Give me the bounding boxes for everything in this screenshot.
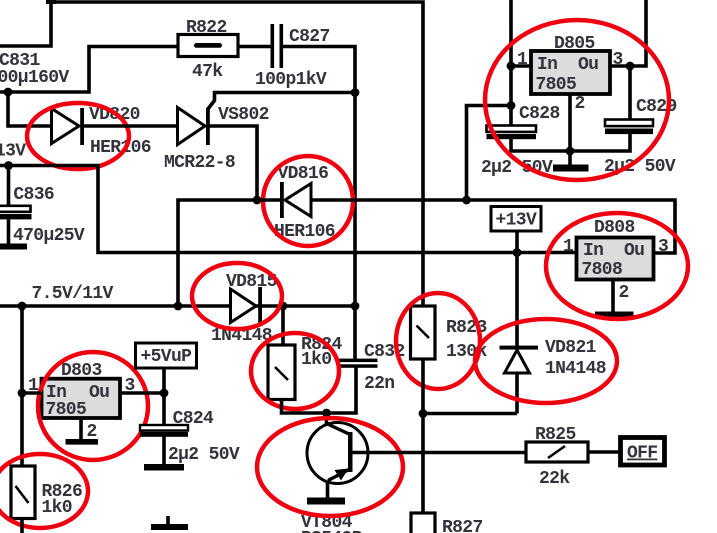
svg-text:OFF: OFF — [627, 444, 657, 464]
label D808 — [594, 218, 635, 238]
diode VD821 — [500, 253, 539, 414]
svg-text:VS802: VS802 — [218, 105, 269, 125]
annotation ellipse VD820 — [27, 103, 129, 169]
wire top horizontal rail into x423 vertical down to R823 — [51, 2, 423, 306]
node top-left junction — [46, 0, 56, 4]
svg-text:D805: D805 — [554, 34, 595, 54]
label C829 — [636, 97, 677, 117]
wire R823 bottom vertical down to R827 — [421, 359, 425, 513]
label D803 — [61, 361, 102, 381]
node VT804 collector junction — [322, 409, 331, 418]
wire D803 pin2 stub — [79, 418, 83, 439]
label 7.5V/11V — [32, 284, 114, 304]
label VD816 — [278, 164, 329, 184]
svg-text:00µ160V: 00µ160V — [0, 68, 69, 88]
label C829 value — [604, 157, 676, 177]
svg-text:7.5V/11V: 7.5V/11V — [32, 284, 114, 304]
op-amp D803 regulator box — [42, 379, 121, 420]
node 7.5V dot VD816 branch — [174, 302, 183, 311]
svg-text:R822: R822 — [186, 18, 227, 38]
capacitor C832 — [337, 306, 378, 368]
svg-text:MCR22-8: MCR22-8 — [164, 153, 235, 173]
label 13V left edge — [0, 142, 26, 162]
resistor R825 — [526, 442, 588, 462]
annotation ellipse VD816 — [263, 156, 353, 246]
node +5VuP junction — [160, 389, 169, 398]
svg-text:1: 1 — [517, 50, 528, 70]
resistor R824 — [268, 345, 295, 400]
svg-text:13V: 13V — [0, 142, 26, 162]
wire D803 pin3 to +5VuP node — [120, 391, 164, 395]
wire VD820 anode branch — [8, 92, 52, 126]
annotation ellipse R826 — [0, 454, 88, 528]
label R823 — [446, 318, 487, 338]
op-amp D805 regulator box — [531, 51, 610, 95]
wire C829 top stub — [628, 66, 632, 119]
ground D803 — [66, 439, 99, 445]
node 7.5V dot left — [18, 302, 27, 311]
svg-text:470µ25V: 470µ25V — [13, 226, 85, 246]
wire D805 bottom rail — [511, 134, 630, 151]
svg-text:Ou: Ou — [624, 241, 644, 261]
label C827 value — [255, 70, 327, 90]
node C836 junction — [4, 161, 13, 170]
label C836 value — [13, 226, 85, 246]
label C828 value — [481, 158, 553, 178]
wire R824 top branch — [281, 306, 285, 345]
svg-text:In: In — [583, 241, 603, 261]
wire D805 pin2 stub — [568, 94, 572, 151]
label VD815 type — [211, 326, 272, 346]
svg-text:1N4148: 1N4148 — [545, 359, 606, 379]
svg-text:1k0: 1k0 — [301, 350, 331, 370]
label VT804 — [301, 513, 353, 533]
svg-text:100p1kV: 100p1kV — [255, 70, 327, 90]
resistor R827 — [411, 513, 435, 533]
svg-text:VD821: VD821 — [545, 338, 597, 358]
annotation ellipse VT804 — [257, 418, 403, 516]
svg-text:7808: 7808 — [582, 260, 623, 280]
label C832 — [364, 342, 405, 362]
svg-text:D808: D808 — [594, 218, 635, 238]
power label box +13V — [491, 207, 541, 253]
wire +13V rail from left edge down and across to D808 pin1 — [0, 166, 577, 253]
svg-text:C828: C828 — [519, 104, 560, 124]
label R825 value — [539, 469, 570, 489]
label C827 — [289, 27, 330, 47]
op-amp D808 regulator box — [577, 238, 654, 281]
label R826 value — [42, 498, 72, 518]
wire C831 net to R822 — [0, 47, 178, 93]
svg-text:7805: 7805 — [536, 75, 577, 95]
wire D805 pin3 to top vertical — [610, 0, 646, 66]
wire D805 pin1 — [511, 64, 531, 68]
svg-text:2: 2 — [619, 283, 629, 303]
annotation ellipse VD815 — [192, 263, 282, 329]
diode VD816 — [280, 182, 311, 218]
capacitor C829 — [605, 120, 653, 135]
node 7.5V dot right end — [351, 302, 360, 311]
label VD820 type — [90, 138, 151, 158]
wire VD816 anode right to D808 pin3 — [311, 200, 675, 253]
node +13V stub junction — [513, 248, 522, 257]
wire R822 to C827 — [238, 45, 271, 49]
label D808 pin3 — [658, 237, 668, 257]
label D803 pin2 — [87, 422, 97, 442]
node D805 ground junction — [566, 147, 575, 156]
node D805 pin1 junction — [507, 62, 516, 71]
label R827 — [442, 518, 483, 533]
svg-text:22n: 22n — [364, 374, 394, 394]
label VD821 type — [545, 359, 606, 379]
annotation ellipse D803 — [38, 352, 148, 460]
label D808 pin1 — [563, 237, 574, 257]
wire R823 bottom to VD821 — [423, 412, 517, 416]
thyristor VS802 — [178, 108, 210, 146]
svg-text:2µ2 50V: 2µ2 50V — [168, 445, 240, 465]
ground D805 — [553, 151, 589, 172]
node D803 pin1 junction — [18, 389, 27, 398]
svg-text:C824: C824 — [173, 409, 214, 429]
svg-text:1k0: 1k0 — [42, 498, 72, 518]
svg-text:3: 3 — [658, 237, 668, 257]
wire C828 branch from VD816 line — [467, 106, 512, 201]
label D805 pin1 — [517, 50, 528, 70]
ground VT804 — [307, 498, 345, 505]
svg-text:R827: R827 — [442, 518, 483, 533]
label VT804 type — [301, 529, 363, 533]
label VS802 type — [164, 153, 235, 173]
label R825 — [535, 425, 576, 445]
resistor R823 — [411, 306, 436, 359]
annotation ellipse VD821 — [475, 319, 617, 403]
node 7.5V dot VD815 cathode — [279, 302, 288, 311]
label C831 — [0, 51, 40, 71]
svg-text:+5VuP: +5VuP — [141, 347, 193, 367]
label VD821 — [545, 338, 597, 358]
annotation ellipse R823 — [396, 293, 480, 389]
node gate junction — [351, 88, 360, 97]
wire R826 bottom — [20, 519, 24, 533]
wire 7.5V/11V line — [0, 304, 355, 308]
annotation ellipse D808 — [546, 213, 688, 319]
label C824 — [173, 409, 214, 429]
diode VD820 — [52, 108, 85, 145]
svg-text:47k: 47k — [192, 62, 223, 82]
label R824 — [301, 335, 342, 355]
label C836 — [13, 185, 54, 205]
svg-text:1: 1 — [563, 237, 574, 257]
label D805 pin2 — [575, 94, 585, 114]
svg-text:2: 2 — [575, 94, 585, 114]
label C828 — [519, 104, 560, 124]
svg-text:BS549B: BS549B — [301, 529, 363, 533]
wire R824 bottom to C832 bottom — [282, 366, 357, 413]
resistor R826 — [11, 466, 35, 519]
wire VD816 cathode left corner down to 7.5V line — [178, 200, 281, 306]
annotation ellipse R824 — [251, 333, 339, 409]
label VD820 — [89, 105, 140, 125]
node VD816 line junction — [462, 196, 471, 205]
node C831 junction — [4, 88, 13, 97]
annotation ellipse D805 — [485, 20, 669, 180]
svg-text:Ou: Ou — [89, 383, 109, 403]
node C828 top junction — [507, 101, 516, 110]
label R826 — [42, 482, 83, 502]
transistor VT804 — [307, 423, 368, 498]
svg-text:D803: D803 — [61, 361, 102, 381]
diode VD815 — [231, 287, 263, 324]
power label box +5VuP — [136, 343, 197, 393]
label VD816 type — [274, 222, 335, 242]
svg-text:R825: R825 — [535, 425, 576, 445]
wire VT804 base to R825 — [352, 451, 526, 455]
node R823 bottom junction — [419, 409, 428, 418]
wire top-left vertical to left edge — [0, 0, 51, 46]
capacitor C836 — [0, 166, 32, 244]
capacitor C824 — [140, 393, 188, 464]
label D805 pin3 — [613, 50, 623, 70]
svg-text:22k: 22k — [539, 469, 570, 489]
svg-text:In: In — [537, 55, 557, 75]
ground C836 — [0, 244, 27, 250]
svg-text:C827: C827 — [289, 27, 330, 47]
capacitor C827 — [271, 24, 284, 68]
wire down to R826 — [20, 393, 24, 466]
svg-text:VD816: VD816 — [278, 164, 329, 184]
power label box OFF — [621, 438, 665, 466]
svg-text:C836: C836 — [13, 185, 54, 205]
wire VS802 gate — [208, 93, 356, 110]
node D805 pin3 junction — [626, 62, 635, 71]
label C824 value — [168, 445, 240, 465]
wire C827 right corner down long vertical to 7.5V line — [283, 47, 355, 307]
label R824 value — [301, 350, 331, 370]
svg-text:7805: 7805 — [46, 400, 87, 420]
wire D803 pin1 branch from 7.5V line — [22, 306, 42, 393]
ground C824 — [144, 464, 184, 471]
wire VD820 to VS802 — [84, 124, 178, 128]
label D803 pin1 — [28, 376, 39, 396]
label R822 value — [192, 62, 223, 82]
label VS802 — [218, 105, 269, 125]
label D808 pin2 — [619, 283, 629, 303]
wire D808 pin2 stub — [611, 280, 615, 313]
svg-text:Ou: Ou — [578, 55, 598, 75]
label VD815 — [226, 272, 277, 292]
label C831 value — [0, 68, 69, 88]
wire VS802 cathode down to VD816 line — [209, 126, 257, 200]
label D805 — [554, 34, 595, 54]
wire VT804 collector stub — [325, 413, 329, 424]
resistor R822 — [178, 35, 238, 57]
ground D808 — [595, 312, 634, 319]
svg-text:+13V: +13V — [496, 211, 537, 231]
wire x511 vertical from top to C828 — [509, 0, 513, 125]
wire R825 to OFF — [588, 450, 621, 454]
label R822 — [186, 18, 227, 38]
label R823 value — [446, 342, 487, 362]
label C832 value — [364, 374, 394, 394]
label D803 pin3 — [125, 376, 135, 396]
node VS802 cathode junction — [253, 196, 262, 205]
ground bottom-center — [151, 516, 188, 530]
capacitor C828 — [487, 126, 537, 140]
